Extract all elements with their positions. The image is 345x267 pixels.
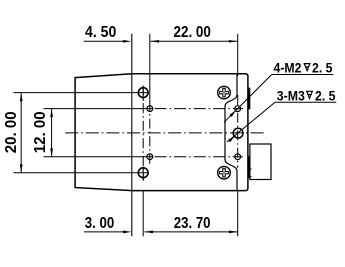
vertical centerline through small front holes (149, 101, 151, 166)
leader 4-M2 underline (272, 74, 334, 76)
S-curve pocket edge on right plate (225, 74, 237, 191)
connector tick 2 (248, 176, 251, 178)
svg-text:2. 5: 2. 5 (315, 88, 336, 103)
phillips screw right bottom (218, 166, 231, 179)
tapped hole M3 middle (233, 128, 243, 138)
arrowhead 22.00 left (151, 40, 160, 43)
extension line bottom screws column (142, 191, 144, 237)
main horizontal centerline (65, 132, 265, 134)
dimension line 20.00 (20, 93, 22, 173)
body outline (camera housing side view) (75, 74, 248, 191)
center mark left top screw (142, 87, 144, 101)
svg-text:3. 00: 3. 00 (85, 215, 115, 232)
vertical centerline through right holes (237, 95, 239, 168)
extension line top right hole column (237, 34, 239, 76)
extension line bottom right hole column (237, 191, 239, 237)
centerline row bottom (small holes) (155, 156, 244, 158)
svg-text:22. 00: 22. 00 (174, 24, 211, 41)
tapped hole M2 right top (235, 106, 241, 112)
dimension line 4.50 (84, 40, 125, 42)
arrowhead 3.00 right (123, 231, 132, 234)
centerline row top (small holes) (155, 108, 244, 110)
small hole M2 bottom (147, 154, 153, 160)
extension line top M2 column (149, 34, 151, 101)
extension line 12.00 bottom (44, 156, 153, 158)
extension line 20.00 bottom (14, 172, 148, 174)
connector tick 1 (248, 168, 251, 170)
svg-text:3-M3: 3-M3 (277, 88, 305, 103)
arrowhead 22.00 right (229, 40, 238, 43)
arrowhead 12.00 down (50, 148, 53, 157)
arrowhead 12.00 up (50, 109, 53, 118)
arrowhead leader 3-M3 (228, 136, 235, 142)
svg-text:4. 50: 4. 50 (85, 24, 116, 41)
depth symbol for 4-M2 (304, 64, 311, 71)
svg-text:4-M2: 4-M2 (274, 61, 302, 76)
arrowhead leader 4-M2 (230, 111, 236, 117)
svg-text:12. 00: 12. 00 (32, 111, 49, 153)
extension line 20.00 top (14, 92, 148, 94)
thick bar upper on right edge (248, 88, 250, 110)
dimension line 23.70 (145, 231, 238, 233)
vertical centerline through left screws (142, 86, 144, 181)
dimension line 12.00 (51, 109, 53, 157)
screw hole left top (138, 88, 148, 98)
step line between housing and front plate (131, 34, 133, 237)
screw hole left bottom (138, 168, 148, 178)
svg-text:2. 5: 2. 5 (312, 61, 333, 76)
leader 4-M2 diagonal (224, 75, 272, 123)
arrowhead 20.00 up (20, 93, 23, 102)
dimension line 22.00 (151, 40, 238, 42)
arrowhead 23.70 right (229, 231, 238, 234)
small hole M2 top (147, 106, 153, 112)
svg-text:23. 70: 23. 70 (174, 215, 211, 232)
arrowhead 23.70 left (145, 231, 154, 234)
svg-text:20. 00: 20. 00 (3, 111, 20, 153)
arrowhead 4.50 right (123, 40, 132, 43)
extension line 12.00 top (44, 108, 153, 110)
arrowhead 20.00 down (20, 164, 23, 173)
leader 3-M3 underline (275, 101, 336, 103)
depth symbol for 3-M3 (306, 91, 313, 98)
connector block (250, 144, 271, 180)
thick bar lower on right edge (248, 156, 250, 178)
dimension line 3.00 (84, 231, 125, 233)
phillips screw right top (218, 86, 231, 99)
center mark left bottom screw (142, 167, 144, 181)
tapped hole M2 right bottom (235, 154, 241, 160)
leader 3-M3 diagonal (227, 102, 275, 142)
